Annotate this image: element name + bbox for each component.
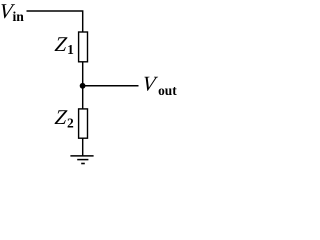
- svg-text:Z: Z: [54, 32, 68, 56]
- svg-text:in: in: [13, 10, 25, 25]
- svg-text:2: 2: [67, 115, 74, 130]
- svg-text:out: out: [158, 84, 177, 99]
- svg-text:V: V: [141, 71, 158, 95]
- wire Z2 to ground: [82, 138, 84, 156]
- wire Vin to Z1: [27, 11, 83, 32]
- svg-text:Z: Z: [54, 105, 68, 129]
- label Z2: [54, 105, 74, 130]
- ground: [70, 156, 93, 164]
- svg-text:1: 1: [67, 42, 74, 57]
- label Z1: [54, 32, 74, 57]
- wire node to Vout: [83, 85, 139, 87]
- node junction: [80, 83, 86, 89]
- net label Vin: [0, 0, 24, 25]
- net label Vout: [141, 71, 177, 99]
- wire Z1 to Z2 through node: [82, 62, 84, 109]
- impedance Z1: [79, 32, 88, 62]
- impedance Z2: [79, 109, 88, 138]
